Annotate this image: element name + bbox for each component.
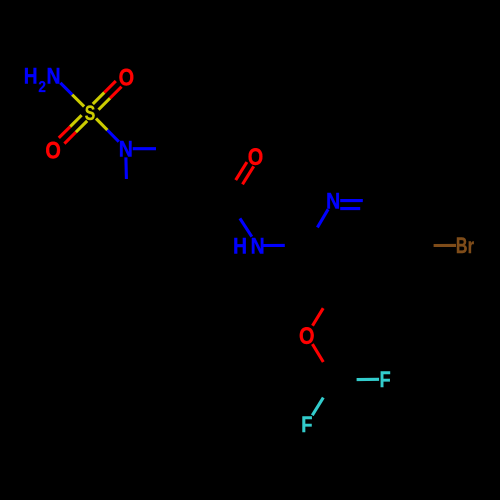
svg-text:H: H (24, 64, 38, 89)
svg-text:2: 2 (38, 80, 46, 97)
bond S=O upper-right double (93, 81, 122, 110)
svg-text:F: F (301, 412, 312, 437)
svg-text:S: S (85, 101, 95, 125)
bond S-N to azetidine (96, 119, 119, 142)
svg-text:O: O (299, 322, 315, 349)
atom label O (carbonyl oxygen) (248, 143, 264, 170)
bond pyridine N1=C6 double (340, 201, 363, 209)
bond C=O carbonyl double (236, 162, 254, 184)
atom label O (difluoromethoxy ether oxygen) (299, 322, 315, 349)
svg-text:r: r (468, 234, 475, 257)
bond pyridine C3-O ether (313, 308, 324, 326)
svg-text:O: O (248, 143, 264, 170)
atom label O (S=O lower-left oxygen) (45, 137, 61, 164)
bond O-CHF2 (312, 344, 323, 362)
bond carbonyl C-N amide (240, 218, 252, 236)
svg-text:O: O (119, 64, 135, 91)
atom label F (right fluorine) (380, 367, 391, 392)
atom label Br (bromine) (456, 234, 475, 259)
atom label HN (amide NH) (233, 234, 264, 259)
svg-text:N: N (46, 64, 60, 88)
svg-text:N: N (119, 137, 133, 161)
svg-text:F: F (380, 367, 391, 392)
atom label O (S=O upper-right oxygen) (119, 64, 135, 91)
svg-text:N: N (326, 189, 340, 213)
atom label N (pyridine N1) (326, 189, 340, 213)
bond azetidine N-C4 (124, 157, 128, 179)
atom label N (azetidine nitrogen) (119, 137, 133, 161)
bond pyridine C2-N1 (317, 209, 328, 227)
atom label S (sulfonyl sulfur) (85, 101, 95, 125)
bond pyridine C5-Br (434, 244, 456, 247)
bond azetidine N-C2 (133, 147, 156, 150)
svg-text:O: O (45, 137, 61, 164)
atom label H2N (sulfamoyl NH2, N of H2N at right) (24, 64, 61, 96)
bond CHF2-F right (357, 378, 380, 381)
svg-text:N: N (251, 234, 265, 258)
bond CHF2-F lower (312, 398, 323, 416)
bond S=O lower-left double (59, 115, 87, 143)
atom label F (lower fluorine) (301, 412, 312, 437)
svg-text:B: B (456, 235, 468, 259)
svg-text:H: H (233, 234, 247, 259)
bond amide N-C2 pyridine (263, 244, 285, 247)
bond H2N-S (sulfamoyl N to S) (60, 83, 84, 107)
